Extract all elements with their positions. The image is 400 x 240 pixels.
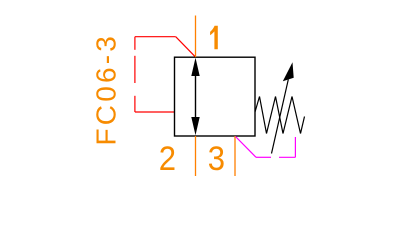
adjustment arrowhead — [283, 62, 294, 81]
adjustment arrow shaft — [272, 80, 289, 154]
pilot line (red, diagonal to port 1) — [176, 37, 196, 57]
drain line (magenta vertical up) — [294, 137, 296, 157]
svg-text:2: 2 — [159, 138, 176, 177]
port 2 line — [195, 136, 197, 176]
pilot line (red, dashed vertical seg c) — [134, 96, 136, 112]
svg-text:FC06-3: FC06-3 — [90, 33, 121, 146]
pilot line (red, dashed vertical seg b) — [134, 56, 136, 83]
pilot line (red, top horizontal) — [135, 36, 176, 38]
svg-text:3: 3 — [208, 139, 225, 178]
valve body box — [175, 57, 256, 136]
flow control arrowhead up — [191, 58, 199, 76]
drain line (magenta dash a) — [256, 156, 271, 158]
pilot line (red, bottom horizontal) — [135, 111, 175, 113]
spring — [255, 97, 305, 134]
drain line (magenta dash b) — [279, 156, 295, 158]
drain line (magenta diagonal) — [236, 137, 257, 158]
port label 1 — [210, 26, 218, 49]
port 1 line — [195, 16, 197, 58]
flow control arrowhead down — [191, 117, 199, 135]
pilot line (red, dashed vertical seg a) — [134, 37, 136, 50]
flow control arrow shaft — [195, 70, 197, 123]
port 3 line — [234, 136, 236, 176]
